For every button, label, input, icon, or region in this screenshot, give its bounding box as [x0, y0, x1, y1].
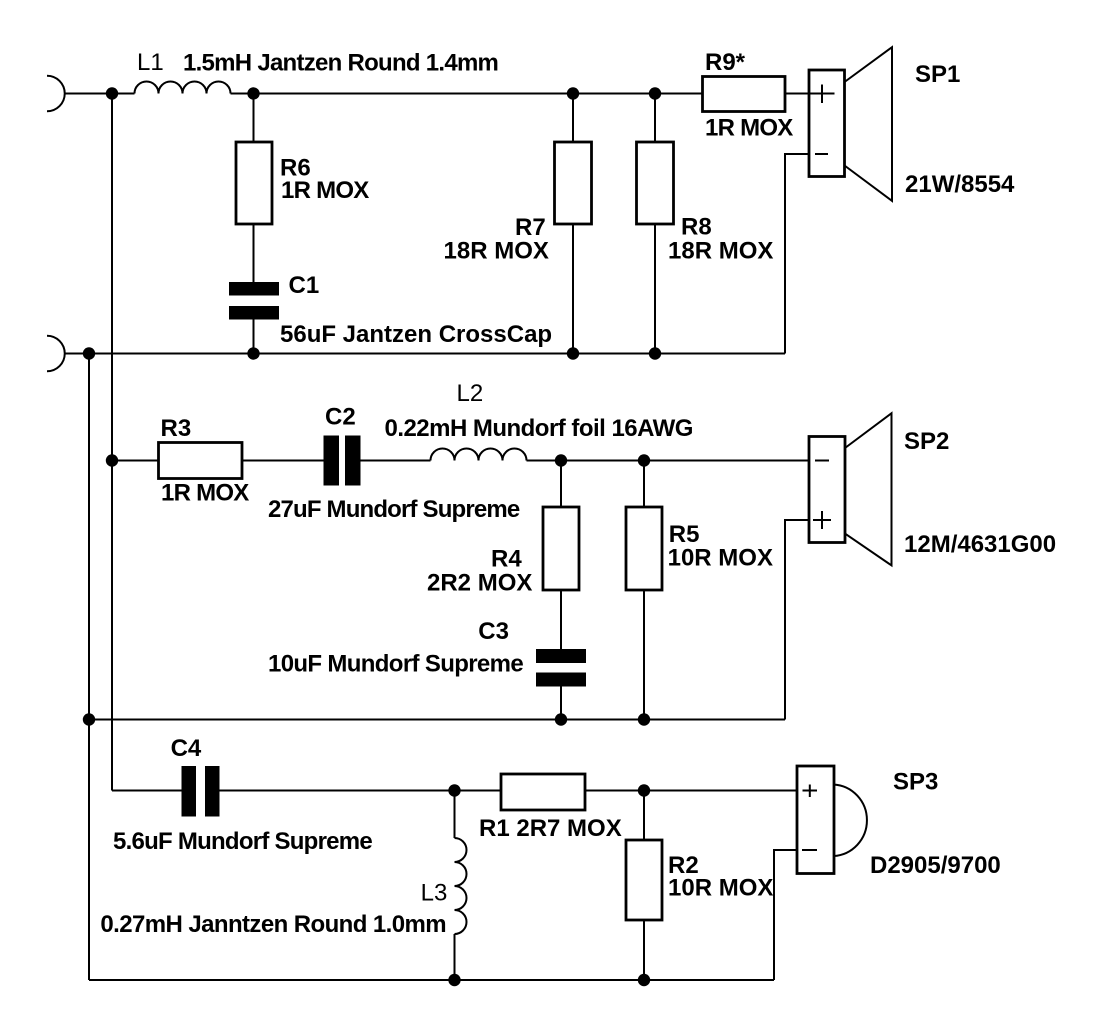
svg-text:L2: L2 [457, 380, 484, 407]
resistor R3 [159, 443, 243, 479]
svg-text:2R2 MOX: 2R2 MOX [427, 570, 532, 597]
svg-text:C4: C4 [171, 735, 202, 762]
wire L3 branch top [454, 791, 456, 839]
wire R8 to lower rail [654, 224, 656, 354]
svg-text:10R MOX: 10R MOX [668, 545, 773, 572]
svg-text:R9*: R9* [705, 49, 746, 76]
wire R1 to SP3 plus [585, 790, 797, 792]
svg-text:1R MOX: 1R MOX [705, 115, 793, 142]
resistor R6 [236, 142, 272, 224]
wire bus corner to C4 [112, 790, 182, 792]
inductor L2 [431, 449, 527, 461]
minus tick SP3 [802, 849, 817, 851]
svg-text:SP2: SP2 [904, 428, 949, 455]
svg-text:R8: R8 [681, 214, 712, 241]
node L junction dot mid rail bus [83, 713, 95, 725]
svg-text:R3: R3 [161, 415, 192, 442]
speaker SP1 body [809, 70, 845, 177]
svg-text:21W/8554: 21W/8554 [905, 171, 1015, 198]
wire C1 to lower rail [253, 320, 255, 354]
svg-text:0.22mH Mundorf foil 16AWG: 0.22mH Mundorf foil 16AWG [385, 415, 693, 442]
svg-text:10uF Mundorf Supreme: 10uF Mundorf Supreme [268, 651, 523, 678]
node A junction dot L1 input [106, 87, 118, 99]
wire negative bus vertical [88, 354, 90, 981]
wire SP1 minus to lower rail [785, 154, 809, 354]
node D junction dot R8 top [649, 87, 661, 99]
inductor L3 [455, 838, 467, 934]
wire C4 to R1 [220, 790, 502, 792]
svg-text:1.5mH Jantzen Round 1.4mm: 1.5mH Jantzen Round 1.4mm [183, 50, 498, 77]
svg-text:L3: L3 [421, 880, 448, 907]
svg-text:1R MOX: 1R MOX [281, 177, 369, 204]
resistor R7 [555, 142, 592, 224]
node F junction dot C1 bottom [247, 347, 259, 359]
wire R7 branch top [572, 94, 574, 143]
speaker SP3 dome [834, 785, 867, 857]
resistor R8 [637, 142, 674, 224]
plus tick SP2 [813, 511, 831, 529]
capacitor C1 [229, 282, 279, 320]
node R junction dot R2 bottom [638, 974, 650, 986]
wire R6 to C1 [253, 224, 255, 282]
svg-text:56uF Jantzen CrossCap: 56uF Jantzen CrossCap [280, 321, 552, 348]
node M junction dot C3 bottom [555, 713, 567, 725]
plus tick SP3 [803, 785, 818, 798]
node P junction dot R2 top [638, 784, 650, 796]
svg-text:R4: R4 [491, 546, 522, 573]
svg-text:SP3: SP3 [893, 769, 938, 796]
svg-text:SP1: SP1 [915, 61, 960, 88]
wire C3 to mid rail [560, 687, 562, 720]
wire C2 to L2 [361, 460, 431, 462]
capacitor C2 [324, 436, 361, 486]
wire R8 branch top [654, 94, 656, 143]
svg-text:1R MOX: 1R MOX [161, 480, 249, 507]
wire R6 branch top [253, 94, 255, 143]
node Q junction dot L3 bottom [448, 974, 460, 986]
wire R7 to lower rail [572, 224, 574, 354]
wire lower rail row2 [65, 353, 785, 355]
inductor L1 [135, 82, 231, 94]
node K junction dot R5 top [638, 454, 650, 466]
wire R9 to SP1 plus [785, 93, 835, 95]
capacitor C3 [536, 649, 586, 687]
resistor R1 [501, 774, 585, 810]
speaker SP1 cone [845, 47, 893, 201]
svg-text:C3: C3 [478, 618, 509, 645]
input terminal - (lower) [47, 336, 65, 372]
wire L3 to bottom rail [454, 934, 456, 980]
minus tick SP1 [815, 153, 828, 155]
svg-text:27uF Mundorf Supreme: 27uF Mundorf Supreme [268, 496, 520, 523]
node B junction dot L1 output [247, 87, 259, 99]
plus tick SP1 [821, 85, 823, 104]
node J junction dot R4 top [555, 454, 567, 466]
node N junction dot R5 bottom [638, 713, 650, 725]
svg-text:12M/4631G00: 12M/4631G00 [904, 531, 1056, 558]
node G junction dot R7 bottom [567, 347, 579, 359]
node I junction dot R3 input [106, 454, 118, 466]
wire bottom rail row6 [89, 979, 774, 981]
resistor R2 [626, 840, 662, 920]
wire terminal+ to L1 [65, 93, 135, 95]
node E junction dot row2 bus [83, 347, 95, 359]
speaker SP3 body [797, 766, 834, 874]
resistor R9 [703, 77, 786, 112]
wire R4 branch top [560, 461, 562, 508]
capacitor C4 [182, 766, 220, 817]
wire R2 to bottom rail [643, 920, 645, 980]
wire R3 to C2 [242, 460, 324, 462]
svg-text:18R MOX: 18R MOX [444, 238, 549, 265]
wire positive bus vertical [111, 94, 113, 791]
speaker SP2 cone [845, 413, 892, 565]
wire R5 to mid rail [643, 590, 645, 720]
input terminal + (top) [47, 76, 65, 112]
wire R5 branch top [643, 461, 645, 508]
svg-text:C2: C2 [325, 404, 356, 431]
speaker SP2 body [809, 437, 845, 543]
minus tick SP2 [815, 460, 829, 462]
svg-text:0.27mH Janntzen Round 1.0mm: 0.27mH Janntzen Round 1.0mm [100, 911, 446, 938]
wire mid rail row4 [89, 719, 785, 721]
wire bus to R3 [112, 460, 159, 462]
node C junction dot R7 top [567, 87, 579, 99]
svg-text:C1: C1 [289, 272, 320, 299]
wire SP3 minus to bottom rail [774, 850, 797, 980]
svg-text:10R MOX: 10R MOX [668, 875, 773, 902]
svg-text:18R MOX: 18R MOX [668, 238, 773, 265]
node H junction dot R8 bottom [649, 347, 661, 359]
svg-text:L1: L1 [137, 49, 164, 76]
svg-text:5.6uF Mundorf Supreme: 5.6uF Mundorf Supreme [113, 828, 372, 855]
svg-text:R1 2R7 MOX: R1 2R7 MOX [479, 815, 622, 842]
wire SP2 plus to mid rail [785, 520, 809, 720]
wire L1 to R9 [231, 93, 703, 95]
wire R4 to C3 [560, 590, 562, 649]
resistor R4 [543, 507, 579, 590]
svg-text:D2905/9700: D2905/9700 [870, 852, 1001, 879]
wire L2 to SP2 minus [527, 460, 810, 462]
wire R2 branch top [643, 791, 645, 841]
node O junction dot L3 top [448, 784, 460, 796]
resistor R5 [626, 507, 662, 590]
